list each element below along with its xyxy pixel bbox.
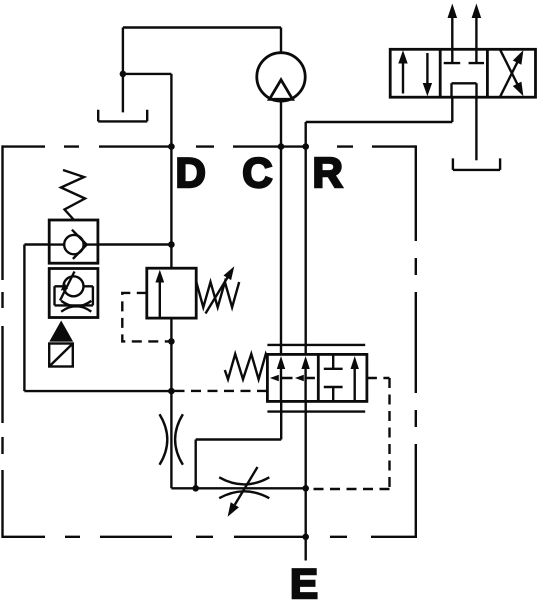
- directional valve V1 center blocked ports: [444, 49, 484, 97]
- spring above check valve: [61, 170, 85, 220]
- directional valve exhaust arrow left: [448, 4, 458, 50]
- pilot triangle (hydraulic pilot): [49, 321, 73, 342]
- svg-text:R: R: [313, 149, 343, 196]
- wire junction vertical to tank T1: [122, 28, 124, 113]
- directional valve V1 right position crossed arrows: [500, 50, 523, 96]
- variable throttle FT: [219, 467, 269, 517]
- relief valve spring: [196, 282, 239, 307]
- node jog junction: [192, 485, 199, 492]
- node E port on boundary: [302, 534, 309, 541]
- wire C line from pump down through valve top: [280, 101, 282, 354]
- node D port on boundary: [168, 143, 175, 150]
- node pilot junction on D line: [168, 338, 175, 345]
- compensator pilot arrows internal: [270, 375, 315, 382]
- orifice on D line: [160, 414, 183, 465]
- svg-text:E: E: [290, 560, 318, 600]
- relief valve RV body: [147, 268, 196, 318]
- wire check valve to D line: [98, 243, 171, 245]
- wire bottom collector line: [171, 487, 305, 489]
- wire top header from tank junction to pump: [123, 28, 281, 53]
- node check-valve branch on D line: [168, 241, 175, 248]
- wire directional valve to tank T2: [475, 97, 477, 160]
- directional valve V1 left position up arrow: [398, 50, 407, 93]
- drain box with diagonal: [49, 344, 73, 367]
- svg-text:C: C: [242, 149, 272, 196]
- wire D line (port D vertical): [170, 74, 172, 268]
- node R port on boundary: [302, 143, 309, 150]
- node junction above tank T1: [120, 71, 127, 78]
- wire D line below relief to bottom rail: [170, 318, 172, 488]
- pump P (circle with open triangle): [257, 53, 305, 101]
- boundary dashed box (manifold envelope): [3, 145, 416, 538]
- wire R to directional valve bottom port: [306, 97, 453, 122]
- wire bypass around left block: [24, 245, 171, 392]
- compensator middle blocked ports and arrow: [324, 354, 359, 401]
- directional valve V1 left position down arrow: [423, 53, 432, 96]
- compensator spring: [225, 354, 268, 379]
- node bottom R junction: [302, 485, 309, 492]
- node bypass junction on D line: [168, 388, 175, 395]
- wire from junction to D line: [123, 73, 171, 75]
- pilot dashed line compensator right side: [309, 378, 390, 489]
- relief valve adjustment arrow: [206, 266, 235, 313]
- svg-text:D: D: [176, 149, 206, 196]
- pilot dashed line of relief valve: [122, 293, 171, 342]
- directional valve V1 envelope: [390, 49, 535, 97]
- check valve block upper (CV): [49, 220, 98, 263]
- wire C jog below compensator: [196, 401, 282, 488]
- tank T1: [98, 110, 147, 122]
- pilot dashed line to compensator spring side: [175, 390, 268, 392]
- directional valve exhaust arrow right: [472, 4, 482, 50]
- compensator valve CP body: [267, 345, 367, 412]
- tank T2: [453, 158, 500, 170]
- wire R/E line lower: [305, 401, 307, 560]
- wire R line vertical: [305, 122, 307, 354]
- pilot poppet block lower: [49, 269, 98, 318]
- compensator left position arrows: [277, 356, 310, 401]
- node C port on boundary: [278, 143, 285, 150]
